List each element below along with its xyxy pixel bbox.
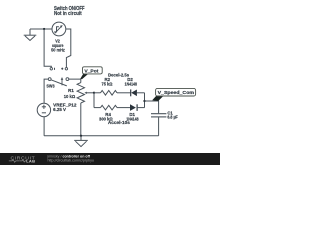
wire VREF bottom lead [43, 117, 45, 136]
label flag V_Pot [80, 74, 88, 79]
wire R2 to D2 [117, 92, 130, 94]
svg-text:50 mHz: 50 mHz [51, 47, 65, 52]
wire ground to V2 [30, 28, 52, 30]
svg-text:V_Pot: V_Pot [84, 68, 99, 73]
wire joint to C1 [145, 101, 159, 113]
svg-text:Not in circuit: Not in circuit [54, 11, 82, 17]
wire D1 to joint [137, 107, 144, 109]
node joint [143, 100, 145, 102]
voltage source V2 (square, not in circuit) [52, 22, 66, 36]
ground (top-left) [24, 29, 37, 41]
resistor R4 [101, 105, 118, 110]
label flag V_Speed_Com [152, 96, 163, 101]
node wiper junction [93, 92, 95, 94]
terminal (V2 minus, open) [50, 68, 52, 70]
wire V2 right terminal drop [66, 29, 71, 68]
wire branch joint vertical [144, 93, 146, 108]
wire D2 to joint [137, 92, 145, 94]
svg-text:LAB: LAB [26, 158, 35, 163]
note "Switch ON/OFF Not in circuit" [54, 6, 85, 17]
voltage source VREF_P12 [37, 103, 50, 116]
svg-text:1N4148: 1N4148 [125, 81, 138, 86]
node rail junction [80, 135, 82, 137]
svg-text:Accel-10s: Accel-10s [108, 120, 131, 125]
resistor R2 [94, 92, 101, 94]
svg-text:75 kΩ: 75 kΩ [102, 81, 113, 86]
R1 wiper arrow [86, 92, 94, 94]
node junction at left column [43, 28, 45, 30]
svg-text:R1: R1 [68, 88, 74, 93]
svg-text:V_Speed_Com: V_Speed_Com [158, 90, 195, 95]
watermark text [47, 153, 94, 162]
wire SW3 left lead [44, 79, 48, 103]
svg-text:6.8 µF: 6.8 µF [167, 115, 178, 120]
wire R1 bottom lead [80, 103, 82, 136]
wire SW3 to pot [69, 79, 81, 83]
capacitor C1 [151, 114, 166, 117]
ground (bottom) [74, 136, 88, 147]
plus mark [61, 68, 63, 70]
svg-text:SW3: SW3 [46, 83, 55, 88]
CircuitLab logo [9, 155, 36, 163]
potentiometer R1 [77, 83, 84, 103]
diode D1 (cathode right) [130, 104, 136, 111]
switch SW3 [48, 78, 69, 86]
minus mark (rotated) [54, 68, 56, 70]
wire bottom rail [44, 135, 159, 137]
svg-text:10 kΩ: 10 kΩ [64, 94, 76, 99]
wire wiper node down to R4 branch [93, 93, 95, 108]
svg-text:6.25 V: 6.25 V [53, 107, 66, 112]
watermark bar [0, 153, 220, 165]
svg-text:http://circuitlab.com/c/prpbyu: http://circuitlab.com/c/prpbyu [48, 157, 95, 162]
wire R4 to D1 [117, 107, 130, 109]
terminal (V2 plus, open) [65, 68, 67, 70]
wire V2 left terminal drop [44, 29, 51, 68]
diode D2 (cathode left) [130, 89, 132, 96]
